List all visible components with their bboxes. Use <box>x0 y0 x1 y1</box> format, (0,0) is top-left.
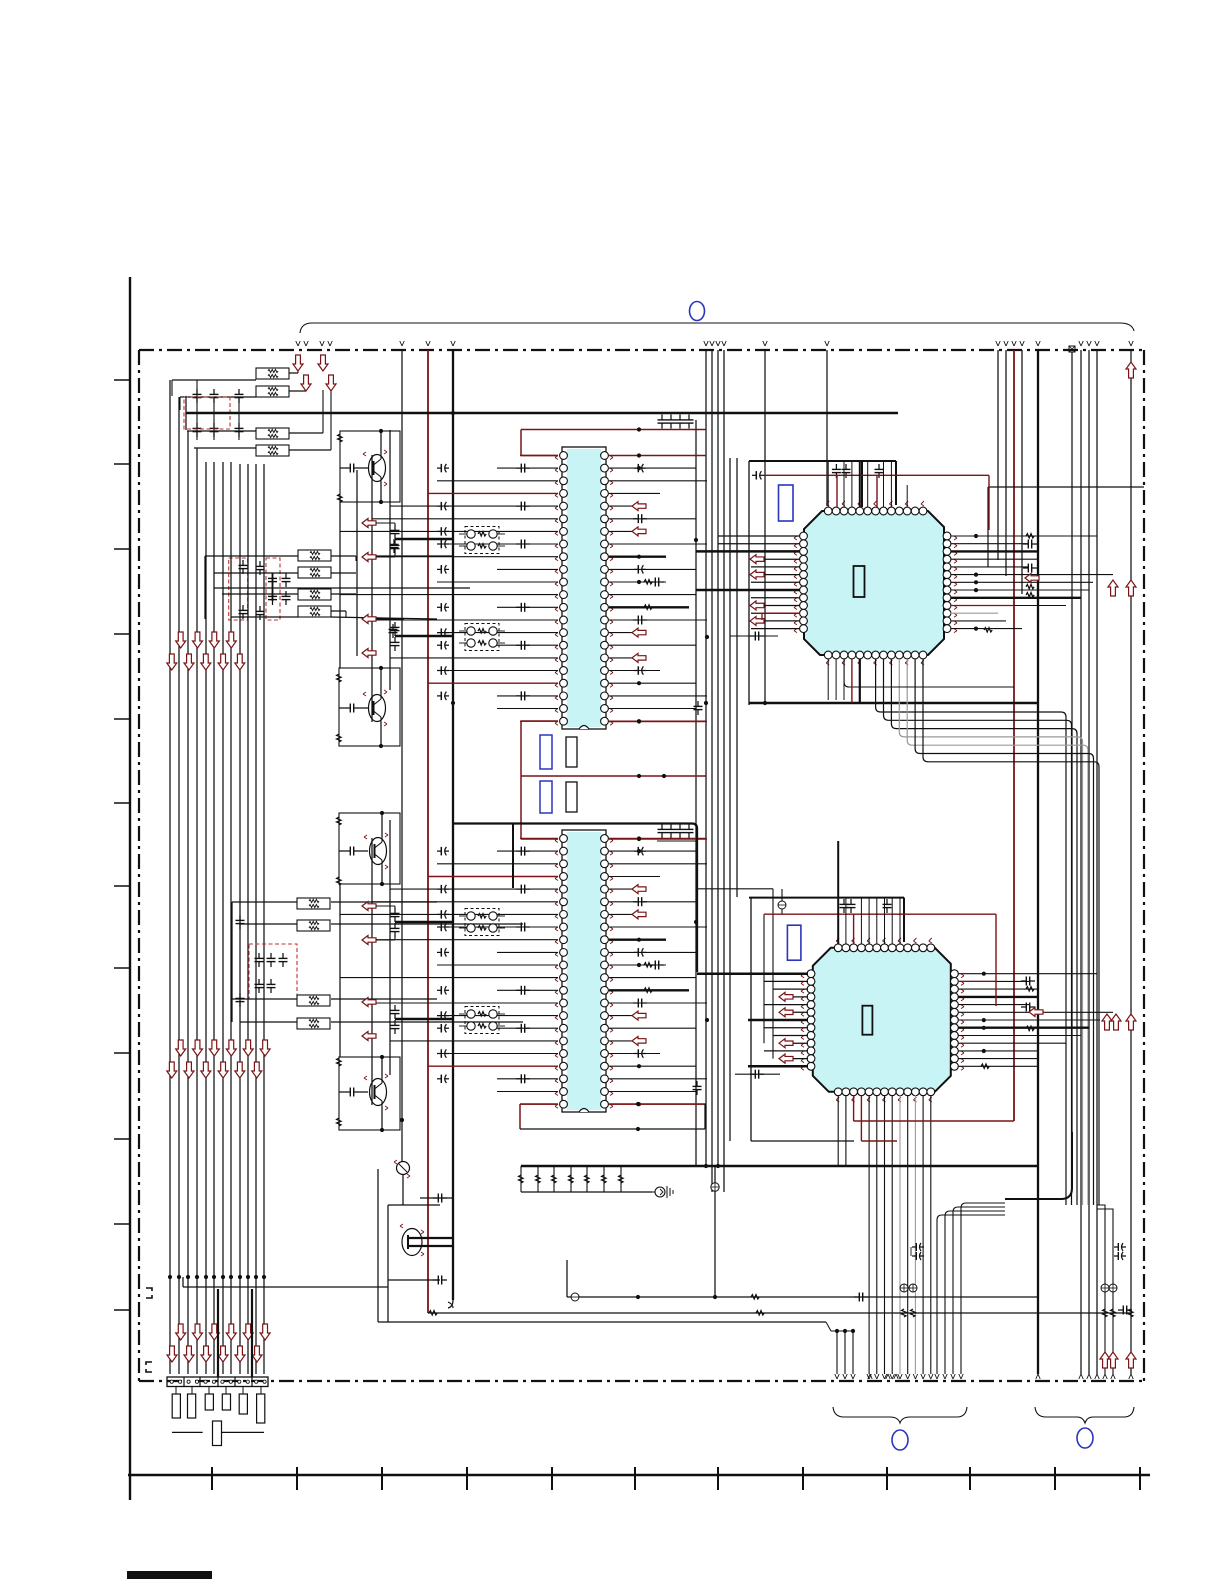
capacitor C group top-left <box>196 389 198 394</box>
IC IC601 body <box>562 447 606 729</box>
vertical bus wire x=453 (thick) <box>452 350 454 1300</box>
capacitor column left of IC602 <box>437 847 449 1083</box>
capacitor on row 10 right of IC601 <box>650 581 655 583</box>
vertical bus wire x=765 <box>764 350 766 703</box>
wire from IC603 bottom pin to red bus <box>844 659 1014 687</box>
dashed red box cluster2 b <box>266 558 280 620</box>
arrows left of IC604 <box>779 992 793 1001</box>
resistor boxes cluster3 <box>297 898 330 909</box>
thick vertical link x=513 <box>512 824 514 889</box>
blue label box IC603 <box>779 485 794 521</box>
bundle from IC603 bottom to right bus <box>876 659 1099 1205</box>
resistor pack RP3 (dashed) <box>465 909 499 936</box>
bottom wire y=1297 <box>567 1296 1037 1298</box>
IC604 pins left <box>807 970 815 978</box>
resistor pack RP2 (dashed) <box>465 624 499 651</box>
capacitors on x=395 node near IC602 <box>394 908 396 913</box>
wire and cap at top-left of IC604 <box>696 888 773 890</box>
IC IC602 pin red ticks <box>555 839 558 841</box>
thick link wires near IC602 <box>395 921 454 923</box>
connector pin boxes below border <box>172 1394 180 1418</box>
long vertical wire x=340 <box>339 502 341 668</box>
red wire on top of IC603 <box>752 474 756 476</box>
wire fan right of IC602 <box>609 836 707 1106</box>
vertical bus wire x=1038 (thick) <box>1037 350 1039 1374</box>
thick elbow from right bus <box>1005 1132 1072 1199</box>
IC IC602 body <box>562 830 606 1112</box>
IC603 pins top <box>824 507 832 515</box>
IC IC601 pins left <box>560 452 568 460</box>
IC603 outer net box <box>748 461 750 705</box>
capacitors right of IC604 <box>1021 980 1026 982</box>
thick link wires near IC601 <box>395 538 454 540</box>
comb collector wire <box>521 1191 652 1193</box>
wires from resistor block to top stubs <box>289 372 298 374</box>
down arrows on left bus row A1 <box>176 632 186 648</box>
bracket mark b <box>146 1362 152 1372</box>
capacitors cluster3 <box>258 953 260 958</box>
junction dots on mid buses <box>694 538 698 542</box>
cap symbols bottom mid group <box>912 1246 916 1248</box>
vertical bus wire x=428 (signal, dark red) <box>427 350 429 1313</box>
thick bus elbow into IC604 area <box>453 824 697 973</box>
wire fan left of IC604 <box>697 974 808 1067</box>
alignment dashed box (red) <box>184 397 230 429</box>
blue part label box b <box>540 781 552 813</box>
maroon loop at IC602 bottom <box>520 1103 558 1105</box>
red wires below IC604 <box>854 1120 1014 1122</box>
transistor Q3 <box>370 838 387 865</box>
left wire bus 12 lines <box>169 380 171 1374</box>
resistor comb below y=1166 <box>520 1166 522 1192</box>
IC604 outer net box <box>750 898 752 1141</box>
thick feed wires into connector <box>217 1289 219 1377</box>
resistor network R-block rows (lower) <box>256 428 289 439</box>
wire from bus to bottom network <box>183 1286 388 1288</box>
maroon loop at IC601 pin1 <box>521 429 706 431</box>
ground symbol G1 <box>655 1187 665 1197</box>
up arrows right of IC604 <box>1102 1014 1112 1030</box>
wires on top of IC603 (black) <box>828 461 907 507</box>
IC603 pins right <box>943 532 951 540</box>
red wire on top of IC604 <box>764 913 996 915</box>
vertical pol caps bottom right <box>1101 1284 1109 1292</box>
wire fan left of IC601 <box>340 456 558 722</box>
thick verticals from net box to IC603 top pins <box>861 461 863 507</box>
corner wire from IC603 right to border <box>987 487 989 567</box>
bracket mark a <box>146 1288 152 1298</box>
down arrows on left bus row C2 <box>167 1346 177 1362</box>
resistor loops cluster2 <box>298 550 331 561</box>
IC IC603 body <box>804 511 944 655</box>
top off-page connector chevrons <box>296 341 298 346</box>
down arrow at top stub x=298 <box>293 355 303 371</box>
IC604 pins top <box>834 944 842 952</box>
transistor Q1 <box>369 455 386 482</box>
capacitor column left of IC601 <box>437 464 449 700</box>
dashed red box cluster2 a <box>229 558 248 620</box>
thick bus under IC603 <box>749 702 1038 704</box>
signal arrows left column near IC601 <box>362 519 376 528</box>
thick bus wire y=1166 <box>521 1165 1037 1167</box>
left bus junction dots <box>168 1275 172 1279</box>
capacitors in cluster2 <box>242 560 244 565</box>
capacitor on x=697 near IC602 bottom <box>696 1081 698 1086</box>
connector CN at bottom border <box>167 1377 268 1387</box>
IC603 pins left <box>800 532 808 540</box>
bottom chevrons of right bus group <box>1079 1374 1081 1379</box>
capacitor on x=698 node <box>697 701 699 706</box>
capacitors right of IC603 <box>1023 543 1028 545</box>
capacitor on x=715 drop <box>714 1166 716 1297</box>
vertical bus wire x=827 <box>826 350 828 506</box>
elbow wires into far right bus <box>1097 1205 1113 1374</box>
chevrons mixed at bottom border <box>868 1374 870 1379</box>
red wire left of IC603 <box>762 612 800 614</box>
signal arrows left column near IC602 <box>362 902 376 911</box>
IC IC601 pin red ticks <box>555 456 558 458</box>
page frame bottom tick marks <box>211 1467 213 1490</box>
capacitor cluster above IC601 right <box>661 415 663 420</box>
transistor Q3 cell box <box>339 813 400 884</box>
blue part label box a <box>540 735 552 769</box>
capacitor column right of IC602 <box>633 847 647 1058</box>
wire fan right of IC604 <box>958 974 1113 1067</box>
page frame left ruler line <box>129 277 131 1500</box>
transistor Q4 <box>370 1079 387 1106</box>
capacitors on IC604 net box top <box>843 899 845 904</box>
zigzag marks right of IC604 <box>1026 987 1034 991</box>
bottom chevrons under IC604 <box>867 1374 869 1379</box>
cluster3 wires right <box>331 901 437 903</box>
transistor Q2 <box>369 695 386 722</box>
capacitors on IC603 net box top <box>835 464 837 469</box>
wire below transistor Q5 <box>402 1175 404 1205</box>
capacitor column x=523 near IC601 <box>516 464 530 701</box>
signal arrows right of IC601 <box>632 502 646 663</box>
arrows left of IC603 <box>750 555 764 564</box>
capacitor at base of Q2 <box>345 707 350 709</box>
vertical wire x=372 <box>371 455 373 722</box>
transistor Q5 small <box>397 1162 410 1175</box>
page frame left tick marks <box>114 379 130 381</box>
capacitor column right of IC601 <box>633 464 647 675</box>
bottom wire y=1322 with branch dots <box>378 1321 826 1323</box>
wire rows from resistor block to left bus <box>172 379 256 381</box>
up arrows right area <box>1108 580 1118 596</box>
blue label box IC604 <box>787 925 801 960</box>
junction dots right of IC603 <box>974 534 978 538</box>
vertical wire x=390 <box>389 430 391 690</box>
red stub from IC603 bottom <box>851 659 853 703</box>
vertical bus wire x=402 <box>401 350 403 1161</box>
capacitor column x=523 near IC602 <box>516 847 530 1084</box>
cluster2 wires <box>205 555 298 557</box>
zig marks on bottom verticals <box>902 1309 906 1317</box>
capacitor at base of Q4 <box>345 1091 350 1093</box>
capacitors on x=395 node near IC601 <box>394 525 396 530</box>
vertical wire x=390 lower <box>389 820 391 1075</box>
IC603 pins bottom <box>824 651 832 659</box>
top bus brace <box>300 323 1134 333</box>
resistor pack RP1 (dashed) between buses <box>465 527 499 554</box>
page frame bottom ruler line <box>128 1474 1150 1476</box>
down arrows on left bus row C1 <box>176 1324 186 1340</box>
vertical pol caps bottom mid <box>900 1284 908 1292</box>
wires below IC604 <box>838 1095 931 1374</box>
vertical bus wires right group x=998-1022 <box>997 350 999 560</box>
bottom left brace <box>833 1407 967 1423</box>
down arrow at top stub x=306 <box>301 375 311 391</box>
capacitor below left pins of IC603 <box>730 635 778 637</box>
capacitor on row 10 right of IC602 <box>650 964 655 966</box>
wires from dots to bottom border <box>836 1331 838 1374</box>
bottom wire y=1313 <box>428 1312 1131 1314</box>
wire fan left of IC603 <box>696 536 800 629</box>
cap symbols bottom right group <box>1114 1246 1118 1248</box>
IC IC602 pins left <box>560 835 568 843</box>
bottom right brace <box>1035 1407 1134 1423</box>
arrow pointing to IC604 right <box>1029 1008 1043 1017</box>
IC IC601 pins right <box>601 452 609 460</box>
bottom right brace label circle <box>1077 1428 1093 1448</box>
hook at bottom of x=453 bus <box>448 1300 453 1308</box>
main thick bus wire y=413 <box>186 412 898 414</box>
down arrows on left bus row B2 <box>167 1062 177 1078</box>
red wire right of IC604 <box>958 980 996 982</box>
down arrows on left bus row A2 <box>167 654 177 670</box>
vertical wire x=372 lower <box>371 838 373 1105</box>
capacitor below left pins of IC604 <box>735 1073 780 1075</box>
wire fan right of IC603 <box>951 536 1114 629</box>
up arrow top right <box>1126 362 1136 378</box>
IC IC604 body <box>813 948 951 1092</box>
IC603 center marking <box>854 566 865 597</box>
thick stub from IC603 bottom <box>859 659 861 703</box>
arrow pointing to IC603 right <box>1025 574 1039 583</box>
IC604 pins right <box>951 970 959 978</box>
resistor network R-block rows (upper) <box>256 368 289 379</box>
component box below connector <box>213 1421 222 1446</box>
IC604 center marking <box>862 1006 872 1035</box>
bottom left brace label circle <box>892 1430 908 1450</box>
capacitor cluster above IC602 right <box>661 824 663 829</box>
transistor Q1 cell box <box>340 431 400 502</box>
wire at component below connector <box>172 1431 203 1433</box>
transistor Q2 cell box <box>339 668 400 746</box>
resistor pack RP4 (dashed) <box>465 1007 499 1034</box>
down arrow at top stub x=332 <box>326 375 336 391</box>
top bus label circle Q <box>690 302 705 321</box>
elbow wires from right to bottom bus <box>935 1203 1005 1379</box>
junction dots right of IC604 <box>982 972 986 976</box>
down arrows on left bus row B1 <box>176 1040 186 1056</box>
capacitor row under thick elbow <box>657 840 697 842</box>
vertical wires between QFP boxes <box>729 458 731 1141</box>
capacitor at base of Q3 <box>345 850 350 852</box>
long vertical wire x=340 lower <box>339 884 341 1057</box>
wire fan right of IC601 <box>609 453 707 723</box>
down arrow at top stub x=324 <box>318 355 328 371</box>
signal arrows right of IC602 <box>632 885 646 1046</box>
cluster3 wires left <box>232 901 297 903</box>
dashed red box cluster3 <box>249 944 297 999</box>
capacitor at base of Q1 <box>345 467 350 469</box>
short stubs from IC603 bottom <box>827 659 829 700</box>
bottom right up arrows <box>1100 1352 1110 1368</box>
red wire right of IC603 <box>951 605 1015 607</box>
vertical bus wires far right group <box>1071 352 1073 1132</box>
transistor Q4 cell box <box>339 1057 400 1130</box>
IC603 pin red ticks <box>794 536 797 538</box>
IC IC602 pins right <box>601 835 609 843</box>
vertical bus wires x=696-724 <box>695 420 697 1166</box>
transistor Q6 <box>402 1229 422 1256</box>
part box a2 <box>566 737 577 767</box>
vertical bus wire x=1014 (dark red) <box>1013 350 1015 1121</box>
maroon loop between ICs <box>520 721 522 839</box>
IC604 pins bottom <box>834 1088 842 1096</box>
Q6 cell wires <box>387 1205 389 1322</box>
IC604 pin red ticks <box>801 974 804 976</box>
vertical wire x=357 <box>356 470 358 656</box>
part box b2 <box>566 782 577 812</box>
schematic boundary dash-dot border <box>139 349 1144 351</box>
wires on top of IC604 (black) <box>838 841 900 944</box>
wire fan left of IC602 <box>340 839 558 1105</box>
zigzag marks right of IC603 <box>1026 534 1034 538</box>
off-page square symbol at top border <box>1069 346 1075 352</box>
connector tails below border <box>175 1387 177 1395</box>
footer bar <box>127 1571 212 1579</box>
